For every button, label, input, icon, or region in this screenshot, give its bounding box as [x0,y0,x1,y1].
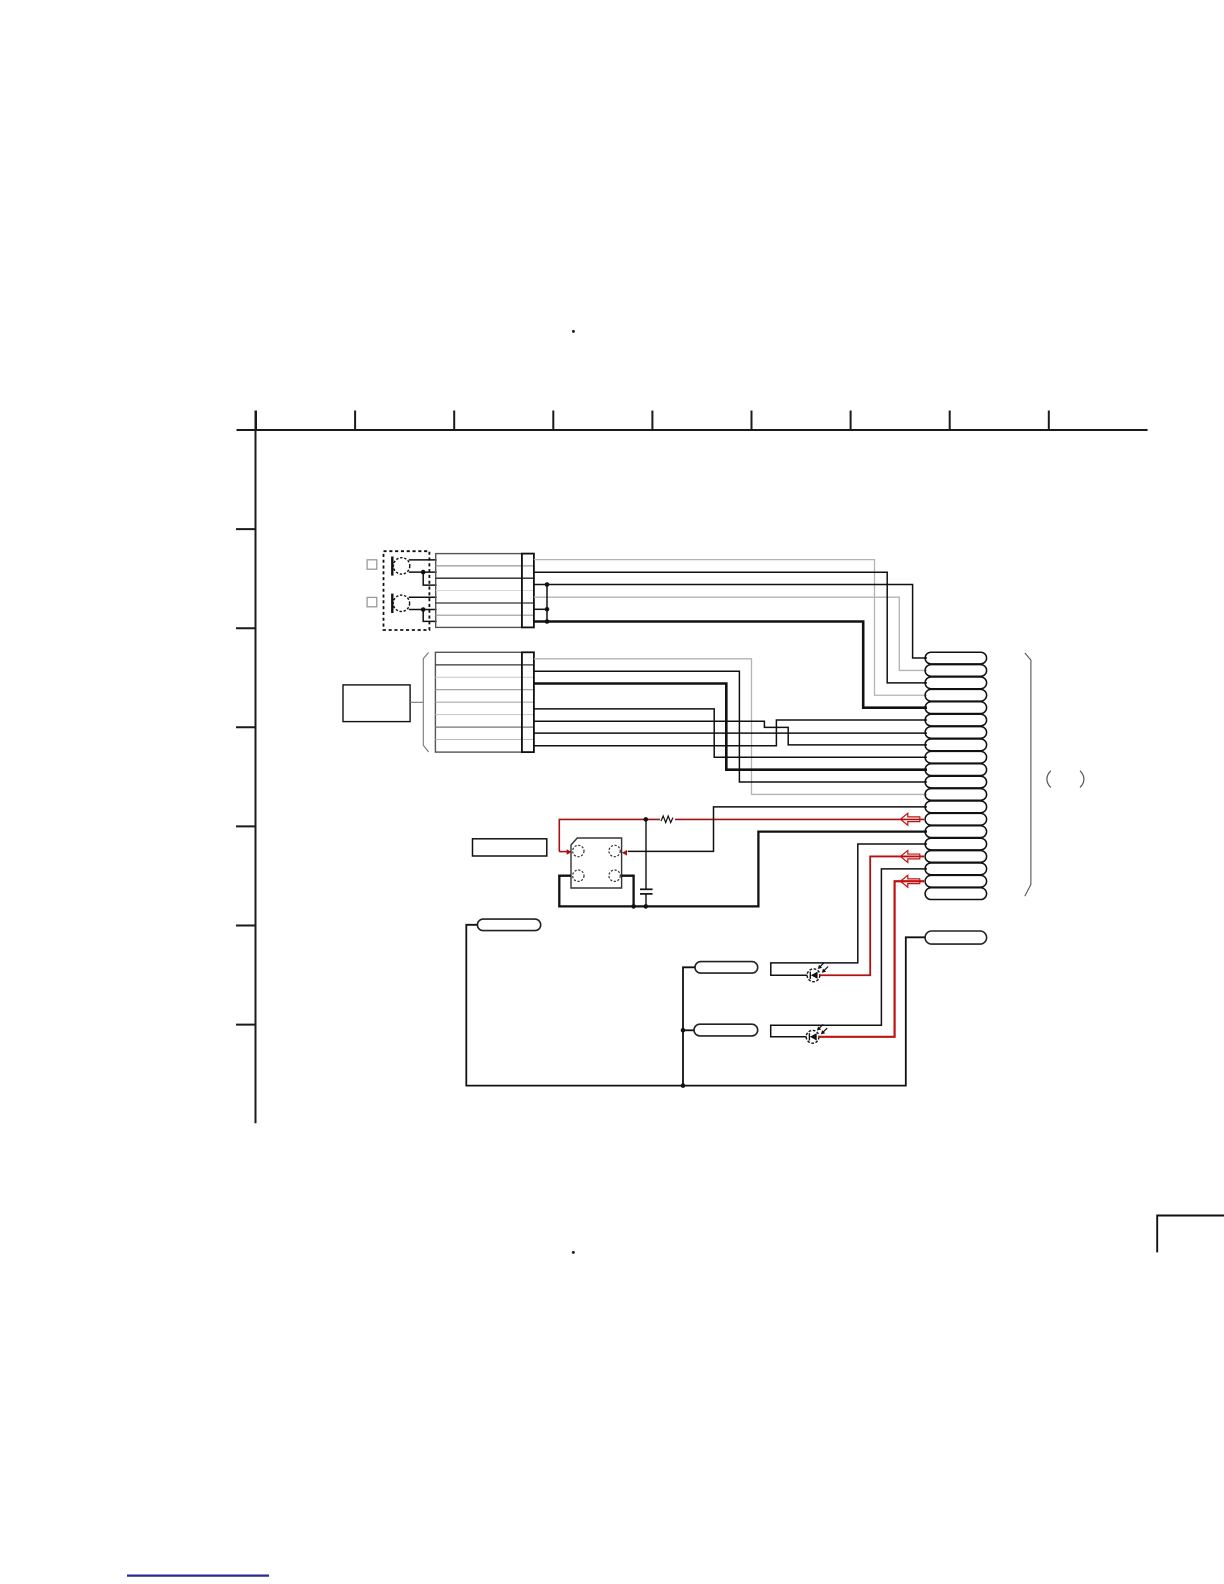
wire M1 ground path to CN3 pin15 (thick) [559,832,927,907]
wire CN2 pin8 to CN3 pin6 [534,720,927,746]
wire CN1 pin3 to CN3 pin1 [534,585,927,659]
ruler left axis [236,411,256,1124]
wire J2 sleeve branch to CN1 pin6 [423,610,437,622]
resistor Wr [661,816,673,823]
brace CN2 [423,653,428,753]
wire CN2 pin2 to CN3 pin11 [534,671,927,782]
wire CN2 pin5 to CN3 pin9 [534,709,927,757]
jack J2 [392,594,409,613]
node J2 sleeve junction [421,607,426,612]
bracket right [1025,653,1031,896]
node ground bus junction [681,1083,686,1088]
wire CN1 pin2 to CN3 pin3 [534,572,927,683]
relay M1 body [571,838,622,888]
wire pill A to ground bus [466,925,925,1086]
wire pill B drop [683,967,695,1085]
node ground A [631,904,636,909]
relay M1 pin circles [573,845,621,881]
capacitor C1 [640,819,653,906]
connector CN1 mating half [522,554,534,628]
connector CN1 body [436,554,534,628]
arrowhead red at M1 pin1 [567,849,572,855]
node red/capacitor junction [644,817,649,822]
jack J1 [392,557,410,576]
corner mark bottom right [1157,1216,1224,1253]
wire CN3 pin16 to LED D1 [771,844,927,975]
wire CN2 pin6 to CN3 pin8 (jog) [534,721,927,745]
jack board dashed outline [384,551,430,630]
connector CN2 body [435,652,534,752]
connector pill D [925,931,987,944]
ruler top axis [237,411,1148,431]
arrow marker CN3 pin19 [900,875,919,887]
connector pill A [477,919,540,931]
stray period mark top [572,330,575,333]
node tie B [545,607,550,612]
wire J1 sleeve to CN1 pin2 [409,571,437,573]
wire CN2 pin7 to CN3 pin7 [534,732,927,734]
wire red supply to CN3 pin14 [559,819,924,851]
LED D1 [807,963,828,982]
wire CN1 pin5 stub [534,608,548,610]
blue underline bottom left [127,1574,269,1576]
wire M1 pin2 to CN3 pin13 [628,807,927,852]
wire CN3 pin18 to LED D2 [771,869,927,1037]
mounting hole square 1 [367,560,377,569]
wire CN2 pin3 to CN3 pin10 (thick) [534,684,927,770]
wire pill C tap [683,1029,694,1031]
wire LED D1 to CN3 pin17 (red) [820,856,924,975]
wire J2 sleeve to CN1 pin5 [409,609,437,611]
LED D2 [806,1024,827,1043]
mounting hole square 2 [367,597,377,606]
block label box [343,685,410,722]
wire CN1 pin4 to CN3 pin2 (gray) [534,597,927,670]
wire CN1 ground tie [546,585,548,622]
connector pill B [695,962,758,974]
node pill C junction [681,1028,686,1033]
arrow marker CN3 pin17 [900,850,919,862]
wire CN2 pin1 to CN3 pin12 (gray) [534,659,927,795]
stray period mark bottom [572,1251,575,1254]
node tie A [545,582,550,587]
wire J1 sleeve branch to CN1 pin3 [423,572,437,585]
wire M1 pin4 drop [622,876,634,907]
text parenthesis right [1080,771,1084,788]
node ground B [644,904,649,909]
node J1 sleeve junction [421,570,426,575]
arrow marker CN3 pin14 [900,813,919,825]
text parenthesis left [1047,771,1051,788]
arrowhead red at M1 pin2 [622,850,627,856]
wire J1 tip to CN1 pin1 [409,559,437,561]
relay label box [473,839,547,856]
wire CN1 pin1 to CN3 pin4 (gray) [534,560,927,696]
wire LED D2 to CN3 pin19 (red) [819,881,924,1037]
wire box link [410,701,423,703]
wire CN1 pin6 to CN3 pin5 (thick) [534,622,927,708]
connector CN3 pin strip [925,652,987,899]
node tie C [545,619,550,624]
connector CN2 mating half [522,652,534,752]
wire J2 tip to CN1 pin4 [409,596,437,598]
connector pill C [694,1024,758,1036]
